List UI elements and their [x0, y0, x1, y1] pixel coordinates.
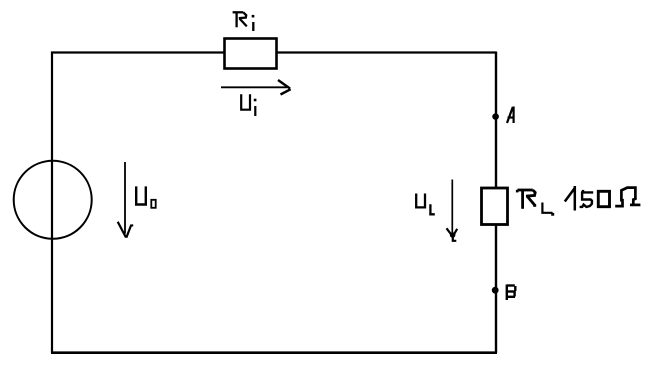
label Ri: [233, 12, 247, 27]
label UL: [416, 194, 435, 215]
label U0: [136, 186, 156, 207]
wire left: [51, 52, 53, 354]
label 150ohm: [565, 186, 641, 211]
wire top: [51, 51, 496, 53]
voltage source U0: [14, 161, 92, 239]
wire right: [495, 52, 497, 353]
node A: [492, 113, 499, 120]
node B: [492, 287, 499, 294]
arrow U0: [118, 162, 134, 238]
label RL: [518, 190, 553, 213]
label B: [507, 285, 516, 301]
resistor RL: [482, 188, 508, 225]
wire bottom: [51, 351, 497, 354]
label Ui: [241, 94, 255, 116]
label A: [507, 107, 514, 124]
resistor Ri: [225, 39, 277, 69]
arrow Ui: [221, 80, 291, 95]
arrow UL: [447, 180, 458, 241]
